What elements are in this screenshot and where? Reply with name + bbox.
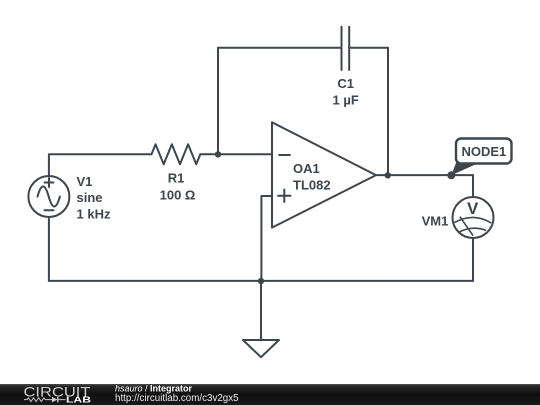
ground symbol [243, 340, 279, 357]
wire op-amp output to right [376, 174, 473, 176]
resistor R1 [152, 144, 201, 164]
node flag NODE1 dot [447, 171, 455, 179]
junction node between R1 and feedback [215, 151, 221, 157]
svg-text:VM1: VM1 [422, 214, 449, 229]
op-amp OA1 [272, 122, 376, 227]
node flag NODE1 box [456, 139, 512, 164]
svg-text:V1: V1 [77, 174, 93, 189]
node flag NODE1 pointer [451, 162, 477, 176]
wire op-amp non-inverting input down to rail [261, 196, 272, 281]
wire C1 to output node [349, 48, 388, 175]
svg-text:R1: R1 [168, 171, 185, 186]
svg-text:OA1: OA1 [293, 161, 320, 176]
wire V1 top to R1 [49, 154, 152, 176]
footer bar [0, 384, 540, 405]
svg-text:1 kHz: 1 kHz [77, 206, 111, 221]
svg-text:http://circuitlab.com/c3v2gx5: http://circuitlab.com/c3v2gx5 [115, 393, 239, 404]
svg-text:V: V [467, 199, 479, 218]
svg-text:100 Ω: 100 Ω [160, 187, 196, 202]
junction node op-amp output [385, 172, 391, 178]
wire V1 bottom [48, 217, 50, 281]
svg-text:LAB: LAB [66, 394, 91, 404]
voltmeter VM1 [453, 197, 494, 238]
wire R1 to op-amp inverting input [200, 153, 272, 155]
junction node ground rail [258, 278, 264, 284]
svg-text:1 µF: 1 µF [333, 93, 359, 108]
wire feedback left: node A up and over to C1 [218, 48, 342, 155]
footer logo resistor zigzag [24, 398, 52, 402]
footer logo diode [52, 397, 66, 403]
svg-text:C1: C1 [337, 76, 354, 91]
svg-text:hsauro / Integrator: hsauro / Integrator [115, 384, 193, 394]
capacitor C1 [342, 27, 350, 70]
svg-text:sine: sine [77, 190, 103, 205]
wire ground stem [260, 281, 262, 340]
wire down to voltmeter [472, 175, 474, 197]
svg-text:NODE1: NODE1 [462, 144, 507, 159]
voltage source V1 [28, 176, 69, 217]
svg-text:TL082: TL082 [293, 178, 331, 193]
wire bottom rail [49, 280, 473, 282]
wire voltmeter to bottom rail [472, 238, 474, 281]
